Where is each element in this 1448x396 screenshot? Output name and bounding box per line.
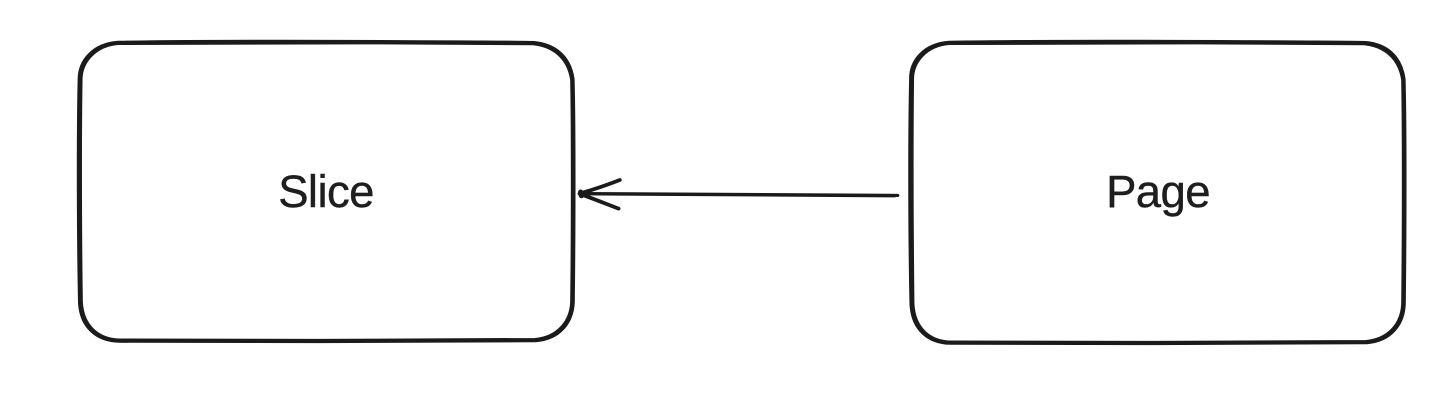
arrow Page to Slice bbox=[580, 180, 898, 209]
svg-text:Page: Page bbox=[1106, 166, 1210, 217]
box Slice bbox=[78, 41, 574, 341]
wire bbox=[581, 194, 898, 196]
svg-text:Slice: Slice bbox=[278, 166, 374, 217]
arrowhead bbox=[580, 180, 620, 194]
box Page bbox=[910, 41, 1405, 343]
